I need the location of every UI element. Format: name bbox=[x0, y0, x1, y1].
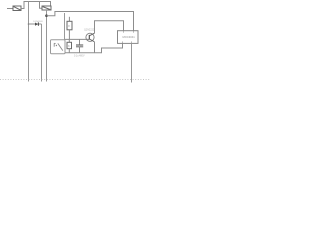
resistor R2 bbox=[67, 42, 72, 48]
wire: fuse F1 right to top bus bbox=[21, 2, 51, 9]
wire: fuse F1 left stub bbox=[7, 8, 13, 10]
fuse F1 bbox=[13, 6, 21, 11]
diode D1 bbox=[35, 22, 38, 25]
transistor Q1 bbox=[86, 33, 95, 42]
resistor R1 top lead bbox=[68, 17, 70, 22]
capacitor C1 bbox=[76, 45, 83, 47]
wire: fuse F2 bottom vertical through node down to bottom bbox=[46, 10, 48, 82]
capacitor C1 top lead bbox=[79, 39, 81, 44]
wire: left vertical rail from top bus down bbox=[28, 2, 30, 82]
wire: Q1 collector up and over to optocoupler bbox=[95, 21, 124, 33]
junction tick on rail at diode branch bbox=[28, 23, 30, 25]
wire: Q1 emitter down to rail bbox=[94, 42, 96, 53]
svg-text:0.1u 400V: 0.1u 400V bbox=[74, 55, 85, 57]
svg-text:8: 8 bbox=[68, 45, 70, 48]
ground rail horizontal stepping up to optocoupler pin bbox=[65, 43, 123, 52]
resistor R2 bottom lead bbox=[68, 49, 70, 53]
dotted page border bbox=[0, 79, 150, 81]
svg-text:D1N4148: D1N4148 bbox=[33, 21, 43, 23]
svg-text:MOC3041: MOC3041 bbox=[123, 35, 136, 39]
svg-text:8: 8 bbox=[68, 25, 70, 28]
resistor R1 bottom lead bbox=[68, 30, 70, 40]
wire: diode cathode vertical down bbox=[41, 24, 43, 82]
wire: U1 bottom right pin down to border bbox=[131, 43, 133, 82]
switch S1 contacts bbox=[54, 43, 63, 50]
optocoupler U1 box bbox=[118, 31, 139, 44]
fuse F2 bbox=[42, 6, 51, 10]
wire: base bus W1 bbox=[65, 38, 90, 40]
wire: vertical from bus to switch box top bbox=[64, 13, 66, 40]
switch S1 contact dot bbox=[56, 45, 57, 46]
switch S1 box bbox=[51, 40, 66, 54]
svg-text:Q2N2222: Q2N2222 bbox=[84, 29, 95, 32]
resistor R2 top lead bbox=[68, 39, 70, 42]
wire: top bus drop to fuse F2 left bbox=[40, 2, 43, 9]
wire: node to main horizontal bus y=11 bbox=[47, 12, 134, 31]
node junction dot bbox=[45, 14, 48, 17]
wire: diode branch horizontal bbox=[29, 23, 42, 25]
resistor R1 bbox=[67, 21, 72, 30]
optocoupler U1 pin stubs bbox=[123, 31, 134, 43]
capacitor C1 bottom lead bbox=[79, 47, 81, 53]
